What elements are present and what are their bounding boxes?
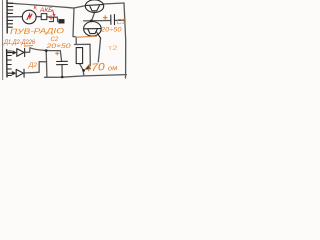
- junction dot emitter: [90, 20, 93, 23]
- page margin line: [2, 0, 4, 80]
- red needle in meter: [27, 14, 32, 20]
- diode D2 input wire: [7, 72, 12, 74]
- wire node to transistor base: [74, 6, 86, 8]
- flourish under D226: [24, 45, 33, 48]
- diode D1 input wire: [7, 52, 13, 54]
- wire C1 to right rail: [115, 19, 126, 21]
- connector X1 box: [41, 14, 47, 20]
- earphone BF1 body: [88, 29, 98, 34]
- svg-text:20×50: 20×50: [45, 43, 71, 50]
- wire junction down: [45, 51, 48, 77]
- meter PA1 circle: [22, 10, 36, 24]
- coil L1: [6, 0, 8, 33]
- diode D2 arrowhead: [12, 71, 16, 75]
- diode D2 triangle: [16, 69, 23, 77]
- capacitor C1 plates: [111, 15, 115, 25]
- junction dot detector rail: [45, 49, 48, 52]
- transistor Q1 body: [87, 5, 103, 11]
- plus C2: [55, 51, 59, 55]
- earphone cord vertical: [98, 38, 100, 62]
- svg-text:К: К: [34, 6, 38, 12]
- junction dot C2 bottom: [61, 76, 64, 79]
- diode D1 cathode bar: [24, 48, 26, 56]
- svg-text:ом: ом: [108, 65, 118, 73]
- connector X2 bracket: [49, 17, 53, 21]
- wire step to terminal: [47, 17, 62, 22]
- earphone BF1 circle: [84, 22, 102, 37]
- svg-text:АКБ: АКБ: [39, 7, 52, 14]
- wire D2 jog: [39, 62, 47, 73]
- coil L2: [6, 50, 8, 78]
- capacitor C2 plates: [57, 61, 68, 64]
- red arrow to wire: [53, 10, 56, 17]
- svg-text:С2: С2: [51, 37, 59, 43]
- red plus: [49, 15, 53, 19]
- coil L2 turns: [7, 51, 12, 76]
- junction dot resistor bottom: [82, 69, 85, 72]
- earphone cord diagonal: [97, 32, 101, 38]
- transistor emitter lead: [92, 12, 95, 20]
- capacitor C2 bottom lead: [61, 65, 63, 77]
- resistor R1 box: [76, 48, 82, 64]
- diode D1 arrowhead: [13, 51, 17, 55]
- earphone BF1 chord: [84, 28, 101, 30]
- wire meter to connector: [36, 16, 41, 18]
- resistor R1 bottom lead: [80, 64, 84, 76]
- detector rail: [30, 48, 60, 51]
- wire coil L1 tap to meter: [7, 16, 22, 18]
- top rail wire: [7, 3, 74, 8]
- transistor Q1 circle: [85, 0, 103, 12]
- svg-text:ПУВ-РАДІО: ПУВ-РАДІО: [10, 26, 64, 36]
- emitter rail: [84, 20, 111, 22]
- diode D1 triangle: [17, 49, 24, 57]
- svg-text:т2: т2: [108, 45, 118, 52]
- svg-text:Д1,Д2-Д226: Д1,Д2-Д226: [3, 39, 35, 46]
- wire base to resistor top: [75, 43, 91, 45]
- top rail right segment: [104, 3, 125, 4]
- plus C1: [103, 15, 107, 19]
- diode D1 output: [25, 48, 30, 53]
- base wire vertical: [73, 8, 76, 44]
- coil L1 turns: [7, 3, 13, 27]
- diode D2 output: [24, 71, 39, 74]
- wire right drop: [87, 44, 91, 69]
- highlight line: [76, 36, 98, 37]
- svg-text:С1: С1: [116, 16, 126, 26]
- right rail: [124, 3, 126, 78]
- capacitor C2 top lead: [60, 51, 61, 62]
- terminal blob: [59, 19, 65, 23]
- svg-text:470: 470: [84, 61, 105, 74]
- bottom rail: [45, 75, 127, 78]
- diode D2 cathode bar: [23, 69, 25, 77]
- svg-text:20÷50: 20÷50: [100, 26, 122, 33]
- svg-text:Д2: Д2: [28, 62, 38, 69]
- arrowhead on right drop: [86, 66, 91, 70]
- paper background: [0, 0, 132, 80]
